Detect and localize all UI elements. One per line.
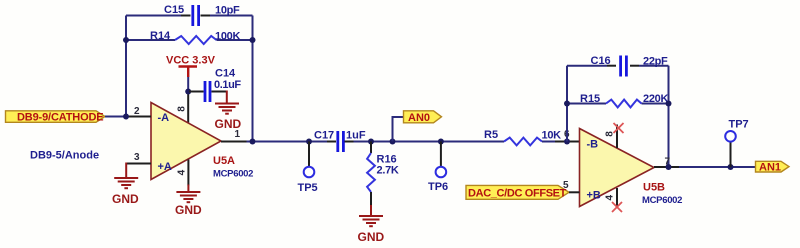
ground stem (pin 3) [125, 163, 127, 178]
wire R15 branch left [567, 103, 606, 105]
pin R16.1 [370, 142, 372, 154]
ground stem (C14) [226, 91, 228, 104]
wire to AN0 label [393, 117, 404, 142]
pin U5B.5 [569, 191, 580, 193]
capacitor C15 [193, 5, 199, 26]
svg-text:0.1uF: 0.1uF [214, 79, 241, 91]
pin U5B.6 [555, 141, 580, 143]
svg-text:+A: +A [158, 161, 172, 173]
junction R16 [368, 139, 374, 145]
pin U5B.4 stub [616, 188, 618, 208]
resistor R16 [367, 153, 375, 192]
svg-text:4: 4 [605, 194, 616, 200]
svg-text:TP7: TP7 [729, 119, 749, 131]
svg-text:GND: GND [112, 192, 139, 206]
svg-text:10K: 10K [542, 130, 562, 142]
resistor R5 [504, 138, 542, 146]
no-connect X pin 8 [614, 123, 624, 133]
svg-text:1: 1 [235, 129, 241, 140]
svg-text:22pF: 22pF [643, 56, 668, 68]
resistor R14 [175, 36, 217, 44]
svg-text:DAC_C/DC OFFSET: DAC_C/DC OFFSET [468, 188, 567, 200]
wire left feedback vertical (U5B loop) [566, 66, 568, 142]
svg-text:DB9-5/Anode: DB9-5/Anode [30, 150, 99, 162]
ground stem (pin 4) [187, 185, 189, 192]
junction TP7 [728, 164, 734, 170]
svg-text:10pF: 10pF [215, 5, 240, 17]
pin C17.2 [345, 141, 354, 143]
wire output to C17 [247, 141, 328, 143]
svg-text:5: 5 [563, 180, 569, 191]
svg-text:MCP6002: MCP6002 [642, 195, 682, 206]
junction R14 left [123, 37, 129, 43]
svg-text:4: 4 [176, 169, 187, 175]
ground symbol (R16) [359, 216, 383, 226]
pin R16.2 [370, 192, 372, 206]
svg-text:-A: -A [158, 112, 170, 124]
wire R5 to junction [542, 141, 555, 143]
wire DB9 label to junction [105, 116, 126, 118]
pin TP5 stub [308, 142, 310, 167]
testpoint TP5 [304, 167, 315, 178]
svg-text:C14: C14 [215, 68, 236, 80]
svg-text:3: 3 [134, 152, 140, 163]
pin U5A.2 [126, 116, 151, 118]
junction R15 left [564, 101, 570, 107]
junction pin2/feedback [123, 114, 129, 120]
pin U5B.7 output [654, 166, 679, 168]
svg-text:R14: R14 [150, 30, 171, 42]
junction TP5 [306, 139, 312, 145]
testpoint TP7 [725, 131, 736, 142]
wire left feedback vertical (U5A loop) [125, 16, 127, 117]
junction R15 right [666, 101, 672, 107]
pin U5B.8 stub [616, 125, 618, 149]
svg-text:100K: 100K [215, 31, 240, 43]
pin U5A.3 [126, 163, 151, 165]
wire output to AN1 [679, 166, 756, 168]
wire right feedback vertical (U5A loop) [252, 16, 254, 142]
resistor R15 [606, 100, 642, 108]
svg-text:GND: GND [175, 203, 202, 217]
svg-text:C16: C16 [591, 55, 611, 67]
svg-text:2.7K: 2.7K [377, 165, 399, 177]
junction pin6/feedback [564, 139, 570, 145]
pin TP6 stub [440, 142, 442, 167]
svg-text:1uF: 1uF [346, 130, 366, 142]
svg-text:TP5: TP5 [298, 182, 318, 194]
wire VCC to junction [187, 77, 189, 93]
svg-text:220K: 220K [643, 93, 668, 105]
svg-text:AN1: AN1 [759, 162, 781, 174]
svg-text:U5A: U5A [213, 155, 235, 167]
wire R14 branch left [126, 39, 175, 41]
pin C16.1 [607, 65, 616, 67]
junction R14 right [250, 37, 256, 43]
no-connect X pin 4 [612, 202, 622, 212]
net label AN0 [404, 111, 442, 123]
svg-text:2: 2 [134, 106, 140, 117]
net label AN1 [756, 161, 790, 172]
junction TP6 [438, 139, 444, 145]
capacitor C14 [205, 81, 210, 102]
wire R15 branch right [642, 103, 669, 105]
wire C15 branch right [210, 15, 253, 17]
pin C16.2 [630, 65, 639, 67]
wire C17 to R5 [354, 141, 505, 143]
svg-text:TP6: TP6 [428, 181, 448, 193]
pin U5A.1 output [221, 141, 247, 143]
capacitor C16 [621, 56, 627, 77]
ground symbol (C14) [215, 104, 239, 114]
net label DAC_C/DC OFFSET [466, 185, 569, 199]
junction output/feedback U5B [666, 164, 672, 170]
svg-text:8: 8 [177, 106, 188, 112]
wire C16 branch right [639, 65, 669, 67]
op-amp U5B [580, 129, 655, 207]
svg-text:R15: R15 [580, 93, 600, 105]
pin U5A.4 [187, 160, 189, 186]
junction AN0 [390, 139, 396, 145]
op-amp U5A [151, 103, 221, 180]
svg-text:+B: +B [587, 190, 601, 202]
ground symbol (pin 3) [114, 178, 138, 188]
capacitor C17 [338, 131, 344, 152]
svg-text:DB9-9/CATHODE: DB9-9/CATHODE [17, 112, 103, 124]
pin C15.2 [201, 15, 211, 17]
ground symbol (pin 4) [176, 192, 200, 202]
power VCC 3.3V [179, 67, 198, 78]
svg-text:MCP6002: MCP6002 [213, 169, 253, 180]
wire right feedback vertical (U5B loop) [668, 66, 670, 167]
svg-text:C17: C17 [314, 130, 334, 142]
svg-text:C15: C15 [164, 4, 184, 16]
svg-text:AN0: AN0 [408, 112, 430, 124]
svg-text:-B: -B [587, 139, 599, 151]
svg-text:GND: GND [358, 230, 385, 244]
svg-text:R5: R5 [484, 129, 498, 141]
pin C17.1 [327, 141, 336, 143]
wire C15 branch left [126, 15, 181, 17]
pin U5A.8 [187, 92, 189, 124]
pin TP7 stub [730, 142, 732, 167]
pin C14.1 [189, 91, 204, 93]
junction VCC/C14 [185, 89, 191, 95]
svg-text:VCC 3.3V: VCC 3.3V [166, 55, 216, 67]
net label DB9-9/CATHODE [6, 111, 106, 123]
pin C15.1 [181, 15, 191, 17]
ground stem (R16) [370, 205, 372, 216]
pin C14.2 [212, 91, 227, 93]
junction output/feedback U5A [250, 139, 256, 145]
wire R14 branch right [217, 39, 253, 41]
svg-text:U5B: U5B [643, 182, 665, 194]
wire C16 branch left [567, 65, 607, 67]
testpoint TP6 [436, 167, 447, 178]
